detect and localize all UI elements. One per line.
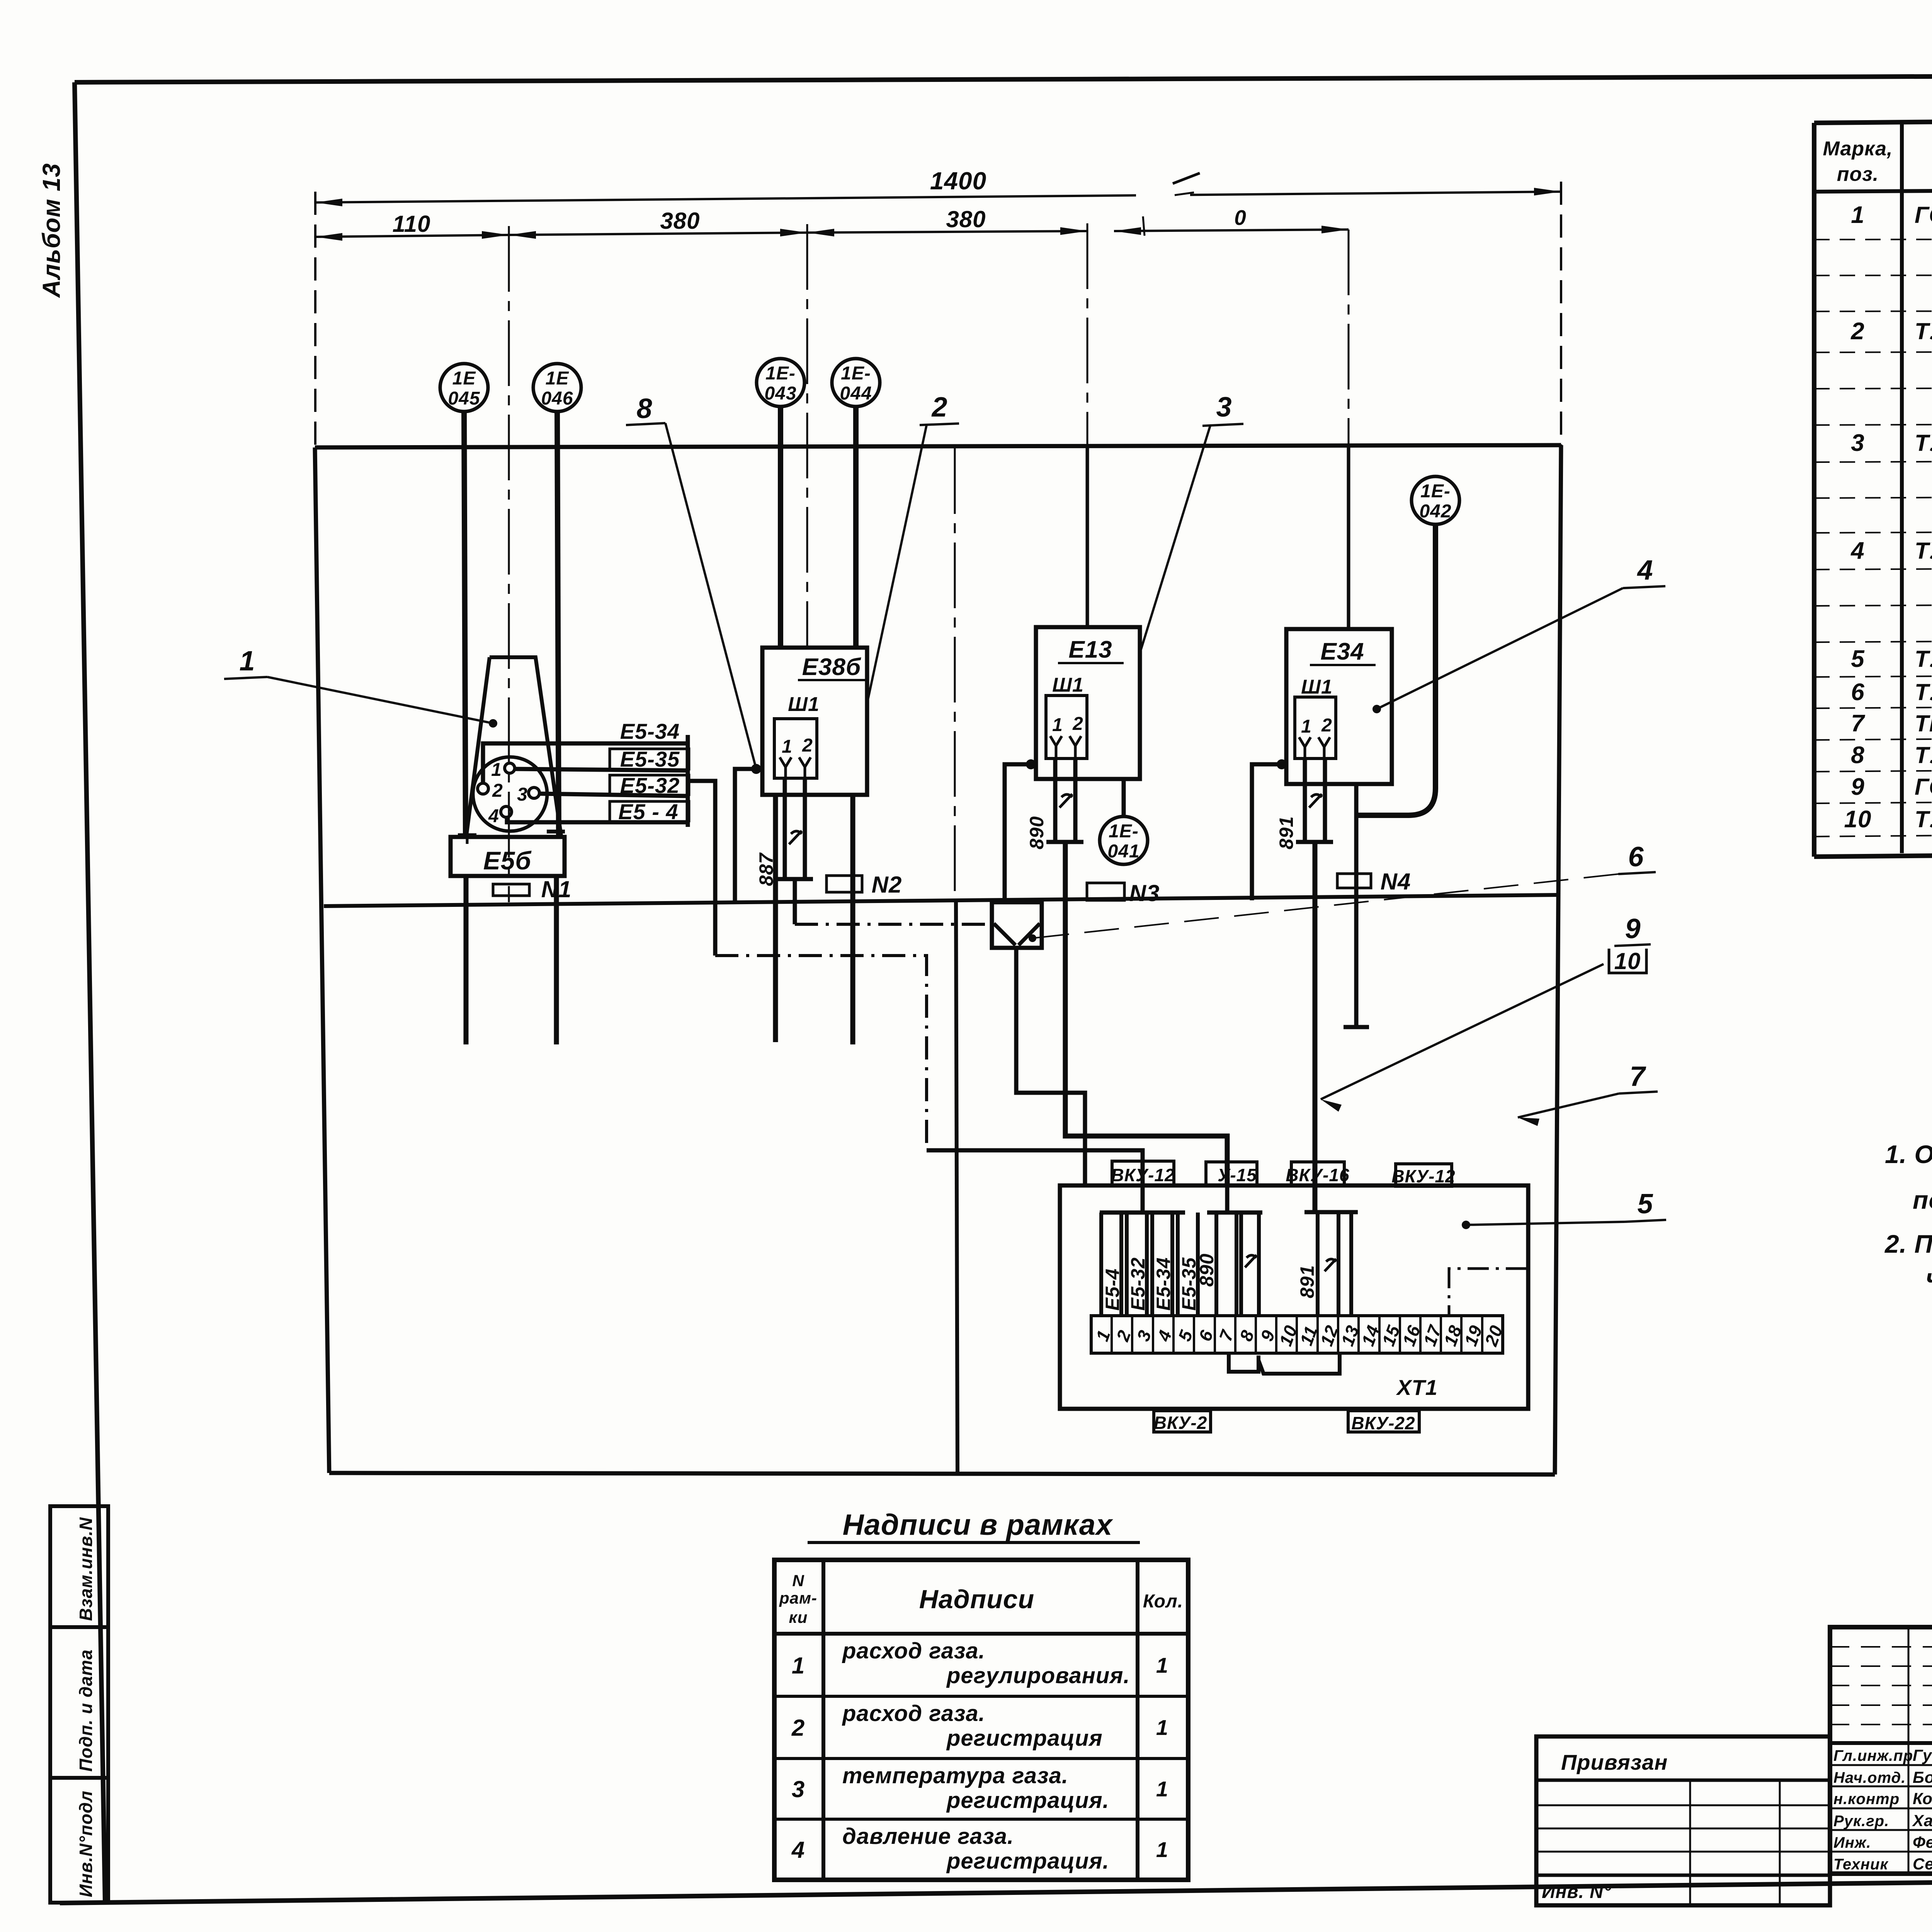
E5b terminal box (451, 825, 565, 876)
wire 1E-043 to E38b (778, 406, 783, 648)
svg-text:Надписи: Надписи (919, 1585, 1034, 1614)
leader 2 (E38b) (866, 392, 959, 707)
svg-text:5: 5 (1637, 1189, 1653, 1219)
svg-text:Е5-34: Е5-34 (1153, 1257, 1174, 1311)
instrument tag circle 1E-046 (533, 364, 581, 412)
svg-text:380: 380 (946, 206, 986, 232)
svg-text:ВКУ-2: ВКУ-2 (1154, 1413, 1207, 1433)
svg-text:3: 3 (1216, 392, 1232, 423)
wire label frame ES-35 (610, 747, 689, 771)
svg-text:1: 1 (491, 760, 502, 780)
svg-text:Техник: Техник (1833, 1856, 1888, 1873)
wire E13 to 1E-041 (1122, 779, 1126, 818)
cable tag VKU-2 (bottom left) (1154, 1411, 1211, 1433)
svg-text:1Е-: 1Е- (765, 363, 796, 384)
leader 5 (KC-20) (1462, 1189, 1666, 1229)
parts list table (1814, 116, 1932, 857)
svg-text:1: 1 (1052, 715, 1063, 735)
stand frame rectangle (pos 7, Rama RPP-1) (315, 445, 1561, 1475)
svg-text:Марка,: Марка, (1823, 138, 1893, 160)
svg-text:регистрация.: регистрация. (946, 1788, 1109, 1813)
cable tag VKU-22 (bottom) (1348, 1411, 1419, 1433)
wire 1E-044 to E38b (853, 406, 859, 648)
wire 1E-046 to E5b minus (557, 412, 559, 837)
svg-text:N4: N4 (1381, 869, 1411, 895)
note 2 four stands (1884, 1230, 1932, 1292)
dimension 380 (second) (807, 206, 1087, 236)
svg-text:9: 9 (1851, 774, 1864, 800)
wire 890 down to KC-20 (1065, 842, 1227, 1185)
svg-text:регистрация.: регистрация. (946, 1849, 1109, 1874)
svg-text:Инв.N°подл: Инв.N°подл (76, 1791, 96, 1897)
svg-text:ТУ36.1276-76: ТУ36.1276-76 (1915, 742, 1932, 768)
svg-text:Корчкова: Корчкова (1913, 1789, 1932, 1808)
svg-text:046: 046 (541, 388, 573, 409)
centerline E38b column (806, 224, 808, 648)
wire bundle ES-4/32/34/35 into terminals 1-4 (1100, 1185, 1200, 1316)
svg-text:9: 9 (1625, 913, 1641, 944)
svg-text:ТУ 25.02.100259-83: ТУ 25.02.100259-83 (1915, 318, 1932, 344)
terminal strip XT1 (1091, 1316, 1507, 1400)
svg-text:Фетисова: Фетисова (1913, 1833, 1932, 1851)
svg-text:4: 4 (1850, 537, 1864, 564)
instrument E34 box (1286, 629, 1392, 784)
svg-text:4: 4 (1636, 555, 1653, 586)
svg-text:891: 891 (1276, 816, 1297, 849)
svg-text:рам-: рам- (779, 1589, 817, 1607)
svg-text:891: 891 (1296, 1265, 1318, 1298)
svg-text:ВКУ-22: ВКУ-22 (1351, 1413, 1415, 1433)
terminal bar right of ES wires (686, 735, 690, 827)
svg-text:Е34: Е34 (1320, 638, 1364, 665)
svg-text:1Е: 1Е (452, 368, 476, 389)
frame labels table title (808, 1509, 1140, 1543)
svg-text:2. По данному чертежу изготови: 2. По данному чертежу изготовить (1884, 1230, 1932, 1258)
svg-text:Харитонова: Харитонова (1912, 1811, 1932, 1830)
wire pin4 to ES-4 bar (507, 817, 687, 822)
instrument tag circle 1E-041 (1100, 816, 1148, 864)
diffmanometer DM body (trapezoid) (466, 657, 561, 835)
cable tag VKU-15 (top) (1206, 1162, 1257, 1185)
svg-text:110: 110 (393, 211, 431, 237)
paper fold artifact on 1400 line (1136, 173, 1200, 236)
junction dot left of E38b (751, 764, 761, 774)
svg-text:У-15: У-15 (1218, 1165, 1257, 1185)
junction box U-994m funnel (992, 902, 1042, 948)
svg-text:температура газа.: температура газа. (842, 1763, 1068, 1788)
svg-text:6: 6 (1628, 842, 1644, 872)
svg-text:регулирования.: регулирования. (946, 1663, 1130, 1688)
svg-text:четыре стенда.: четыре стенда. (1926, 1264, 1932, 1292)
svg-text:Надписи в рамках: Надписи в рамках (843, 1509, 1113, 1541)
svg-text:ГОСТ 18140-77: ГОСТ 18140-77 (1915, 202, 1932, 228)
dimension 0 (1114, 206, 1349, 235)
svg-text:1400: 1400 (930, 167, 986, 195)
svg-text:890: 890 (1196, 1253, 1218, 1287)
svg-text:2: 2 (1321, 715, 1332, 736)
svg-text:давление газа.: давление газа. (842, 1824, 1014, 1849)
wire pair 891 into terminals 12-13 (1296, 1212, 1358, 1316)
tube ES-32 wire to KC-20 (dash-dot path) (689, 781, 1143, 1185)
svg-text:Е5-32: Е5-32 (620, 773, 680, 798)
instrument tag circle 1E-045 (440, 364, 488, 412)
svg-text:Подп. и дата: Подп. и дата (76, 1649, 96, 1772)
svg-text:Е5 - 4: Е5 - 4 (618, 799, 678, 824)
svg-text:2: 2 (802, 735, 813, 756)
svg-text:N3: N3 (1129, 880, 1160, 906)
extension line right (1560, 182, 1562, 447)
svg-text:N2: N2 (872, 872, 902, 898)
dimension 380 (first) (509, 208, 807, 239)
svg-text:ТУ 25.02.101962-79: ТУ 25.02.101962-79 (1915, 538, 1932, 564)
svg-text:по ТМ4-420-86: по ТМ4-420-86 (1913, 1185, 1932, 1214)
frame labels table (774, 1560, 1188, 1880)
privyazan block (1536, 1736, 1830, 1905)
svg-text:ВКУ-12: ВКУ-12 (1391, 1166, 1455, 1186)
svg-text:2: 2 (1072, 714, 1083, 734)
wire 1E-042 curve to E34 column (1356, 524, 1435, 815)
svg-text:1: 1 (1156, 1653, 1168, 1677)
svg-text:Инв. N°: Инв. N° (1542, 1882, 1611, 1902)
instrument E38b box (762, 648, 867, 795)
svg-text:расход газа.: расход газа. (842, 1638, 985, 1663)
svg-text:ВКУ-12: ВКУ-12 (1111, 1165, 1175, 1185)
svg-text:1Е: 1Е (546, 368, 570, 389)
wire 1E-045 to E5b plus (464, 412, 466, 837)
extension line left (314, 192, 316, 447)
svg-text:2: 2 (931, 392, 947, 423)
svg-text:1: 1 (1156, 1715, 1168, 1740)
svg-text:N1: N1 (541, 876, 572, 902)
wire E34 right to N4 column (1344, 784, 1369, 1027)
svg-text:1. Общие технические требовани: 1. Общие технические требования - (1885, 1140, 1932, 1168)
wire pin3 to ES-32 bar (539, 794, 687, 796)
svg-text:Привязан: Привязан (1561, 1750, 1668, 1774)
svg-text:045: 045 (448, 388, 480, 409)
dimension 110 (315, 211, 509, 241)
svg-text:4: 4 (791, 1837, 805, 1863)
instrument E13 box (1036, 627, 1140, 779)
frame tag N4 (1337, 869, 1411, 895)
svg-text:ТУ 25.02.101565-79: ТУ 25.02.101565-79 (1915, 430, 1932, 456)
plug circle with pins (473, 757, 547, 831)
centerline E34 column / 0-dim (1348, 230, 1350, 629)
wire 891 down to KC-20 (1313, 842, 1318, 1212)
svg-text:5: 5 (1851, 646, 1865, 672)
svg-text:N: N (792, 1571, 804, 1590)
instrument tag circle 1E-044 (832, 359, 880, 406)
svg-text:1: 1 (1851, 202, 1864, 228)
wire funnel output to KC-20 (1016, 947, 1085, 1185)
svg-text:1: 1 (792, 1653, 805, 1679)
cable tag VKU-12 (left top) (1111, 1161, 1175, 1185)
svg-text:Инж.: Инж. (1833, 1834, 1871, 1851)
svg-text:1: 1 (1301, 716, 1312, 737)
left stamp box Подп. и дата (50, 1627, 108, 1778)
svg-text:380: 380 (660, 208, 700, 234)
left stamp box Инв.N подл. (50, 1778, 108, 1903)
svg-text:ТУ36.2568- 83: ТУ36.2568- 83 (1915, 646, 1932, 672)
stand shelf line (324, 895, 1558, 906)
svg-text:регистрация: регистрация (946, 1726, 1103, 1751)
junction dot left of E34 (1277, 759, 1287, 769)
svg-text:1Е-: 1Е- (841, 363, 871, 384)
svg-text:Ш1: Ш1 (1301, 676, 1333, 698)
svg-text:0: 0 (1234, 206, 1247, 230)
svg-text:1: 1 (782, 736, 793, 757)
wire junction to shelf (E38b mount) (735, 769, 756, 903)
svg-text:10: 10 (1844, 806, 1872, 833)
wire pair 890 below E13 (1026, 759, 1083, 849)
wire pair 890 into terminals 7-8 (1196, 1185, 1262, 1316)
tube 887 to funnel (dash-dot) (795, 879, 992, 924)
svg-text:Гл.инж.пр: Гл.инж.пр (1833, 1747, 1913, 1764)
instrument tag circle 1E-042 (1412, 476, 1459, 524)
jumper brackets below terminals (1229, 1353, 1340, 1374)
svg-text:поз.: поз. (1837, 163, 1879, 185)
svg-text:Е13: Е13 (1068, 636, 1112, 663)
svg-text:Е5-4: Е5-4 (1102, 1268, 1123, 1311)
svg-text:2: 2 (492, 781, 503, 801)
conductor stub below E38b right (850, 795, 855, 1044)
svg-text:Е5-34: Е5-34 (620, 719, 680, 743)
leader 9 / 10 (wire and tube) (1321, 913, 1651, 1112)
leader 1 (diffmanometer) (224, 646, 497, 728)
svg-text:Взам.инв.N: Взам.инв.N (76, 1517, 96, 1621)
note 1 general requirements (1885, 1140, 1932, 1214)
svg-text:Е5-32: Е5-32 (1127, 1257, 1149, 1311)
frame tag N3 (1087, 880, 1160, 906)
svg-text:1: 1 (1156, 1837, 1168, 1862)
svg-text:4: 4 (488, 806, 499, 827)
svg-text:Е38б: Е38б (802, 654, 861, 680)
instrument tag circle 1E-043 (757, 359, 804, 406)
terminal box KC-20 outline (1060, 1185, 1528, 1409)
svg-text:7: 7 (1629, 1061, 1646, 1092)
svg-text:2: 2 (1850, 318, 1864, 345)
svg-text:1Е-: 1Е- (1420, 481, 1451, 502)
svg-text:н.контр: н.контр (1833, 1791, 1900, 1808)
svg-text:6: 6 (1851, 679, 1864, 706)
conductor stub below E5b left (464, 876, 469, 1044)
svg-text:044: 044 (840, 383, 872, 404)
svg-text:7: 7 (1851, 710, 1865, 737)
wire pair 891 below E34 (1276, 759, 1333, 849)
svg-text:расход газа.: расход газа. (842, 1701, 985, 1726)
svg-text:1: 1 (1156, 1777, 1168, 1801)
leader 6 (funnel box) (1029, 842, 1656, 942)
frame tag N2 (827, 872, 902, 898)
title block frame (1830, 1627, 1932, 1874)
svg-text:Сеидаева: Сеидаева (1913, 1855, 1932, 1873)
svg-text:Ш1: Ш1 (788, 693, 820, 716)
centerline E5b column (508, 226, 510, 902)
left stamp box Взам.инв.N (50, 1506, 108, 1627)
leader 8 (conductor) (626, 393, 755, 766)
svg-text:3: 3 (792, 1776, 805, 1802)
svg-text:ГОСТ 20520- 80: ГОСТ 20520- 80 (1915, 774, 1932, 800)
stand middle divider (955, 448, 957, 1473)
leader 3 (E13) (1140, 392, 1243, 653)
svg-text:2: 2 (791, 1715, 805, 1741)
junction dot left of E13 (1026, 759, 1036, 769)
svg-text:1: 1 (239, 646, 255, 677)
svg-text:042: 042 (1419, 501, 1451, 522)
svg-text:Борисов: Борисов (1913, 1768, 1932, 1786)
centerline E13 column (1087, 223, 1088, 627)
conductor stub below E5b right (554, 876, 559, 1044)
svg-text:8: 8 (636, 393, 652, 424)
wire pin2 to ES-34 bar (483, 743, 687, 783)
svg-text:Рук.гр.: Рук.гр. (1833, 1813, 1889, 1830)
dimension 1400 (315, 167, 1561, 206)
wire label frame ES-4 (610, 799, 689, 824)
svg-text:041: 041 (1107, 841, 1139, 862)
svg-text:ТУ6-05-1342-76: ТУ6-05-1342-76 (1915, 806, 1932, 832)
wire pin1 to ES-35 bar (515, 769, 687, 770)
title block signatures (1830, 1743, 1932, 1874)
svg-text:890: 890 (1026, 816, 1048, 849)
svg-text:ТУ36-2415- 81: ТУ36-2415- 81 (1915, 679, 1932, 705)
wire label frame ES-34 (620, 719, 680, 743)
svg-text:043: 043 (764, 383, 796, 404)
svg-text:ки: ки (789, 1608, 808, 1626)
wire E34 left mount (1252, 764, 1282, 900)
svg-text:Е5б: Е5б (483, 846, 532, 875)
svg-text:Е5-35: Е5-35 (620, 747, 680, 771)
leader 7 (stand frame) (1518, 1061, 1658, 1126)
cable tag VKU-12 (right top) (1391, 1164, 1455, 1186)
leader 4 (E34) (1372, 555, 1665, 713)
svg-text:Кол.: Кол. (1143, 1591, 1183, 1612)
svg-text:ХТ1: ХТ1 (1396, 1375, 1438, 1400)
svg-text:1Е-: 1Е- (1109, 821, 1139, 842)
svg-text:Гусева: Гусева (1913, 1746, 1932, 1764)
svg-text:Нач.отд.: Нач.отд. (1833, 1769, 1906, 1786)
svg-text:8: 8 (1851, 742, 1864, 769)
svg-text:Ш1: Ш1 (1052, 674, 1084, 696)
svg-text:10: 10 (1614, 948, 1641, 974)
svg-text:ТК4- 546- 86: ТК4- 546- 86 (1915, 711, 1932, 736)
tube into terminal 18 (dash-dot) (1449, 1269, 1527, 1316)
wire pair 887 below E38b (755, 778, 813, 886)
frame tag N1 (493, 876, 571, 902)
svg-text:ВКУ-16: ВКУ-16 (1286, 1165, 1349, 1185)
conductor stub below E38b left (773, 795, 778, 1042)
svg-text:Альбом 13: Альбом 13 (37, 163, 65, 298)
cable tag VKU-16 (top) (1286, 1162, 1349, 1185)
wire E13 left mount (1005, 764, 1031, 903)
svg-text:3: 3 (517, 784, 528, 805)
wire label frame ES-32 (610, 773, 689, 798)
album label Альбом 13 (37, 163, 65, 298)
svg-text:3: 3 (1851, 430, 1864, 456)
